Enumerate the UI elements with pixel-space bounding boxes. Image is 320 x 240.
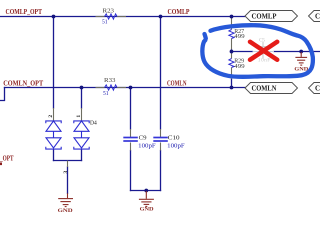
svg-text:COMLP: COMLP	[252, 13, 278, 21]
svg-text:C: C	[315, 13, 320, 21]
svg-text:100pF: 100pF	[167, 143, 185, 149]
svg-text:COMLN: COMLN	[252, 85, 277, 93]
svg-text:COMLP_OPT: COMLP_OPT	[6, 8, 43, 16]
svg-text:C: C	[315, 85, 320, 93]
svg-text:R33: R33	[104, 78, 116, 84]
svg-text:C9: C9	[139, 135, 147, 141]
svg-text:C5: C5	[259, 37, 265, 43]
svg-text:2: 2	[48, 115, 54, 118]
svg-text:499: 499	[234, 64, 245, 70]
svg-text:C10: C10	[168, 135, 180, 141]
svg-text:1: 1	[76, 115, 82, 118]
svg-text:_OPT: _OPT	[0, 154, 14, 162]
svg-text:GND: GND	[58, 208, 73, 214]
svg-text:GND: GND	[140, 207, 154, 213]
svg-text:R23: R23	[103, 8, 115, 14]
svg-text:D4: D4	[90, 120, 97, 126]
svg-text:499: 499	[234, 34, 245, 40]
svg-text:COMLN: COMLN	[167, 79, 187, 87]
svg-text:100pF: 100pF	[138, 143, 156, 149]
svg-text:COMLN_OPT: COMLN_OPT	[3, 79, 43, 87]
svg-text:3: 3	[63, 171, 69, 174]
svg-text:51: 51	[102, 19, 108, 25]
svg-text:51: 51	[103, 91, 109, 97]
svg-text:10nF: 10nF	[258, 57, 271, 63]
svg-text:COMLP: COMLP	[168, 8, 191, 16]
